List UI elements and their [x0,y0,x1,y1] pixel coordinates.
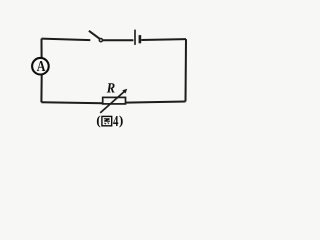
wire: bottom side, left segment (bottom-left corner to rheostat) [41,102,102,103]
label R [107,83,115,92]
wire: left side, upper (corner down to ammeter) [41,39,43,59]
caption glyph tu (figure char) [102,116,112,125]
rheostat R body [103,97,126,104]
switch S pivot contact [99,39,102,42]
battery B1 long plate [134,30,136,45]
caption ) [119,116,122,128]
wire: battery to top-right corner [141,38,186,41]
switch S lever [89,31,100,39]
ammeter A1 circle [32,58,49,75]
caption digit 4 [113,116,118,126]
ammeter A1 letter A [37,61,46,71]
battery B1 short plate [139,35,142,43]
wire: bottom side, right segment (rheostat to bottom-right corner) [126,102,186,103]
wire: left side, lower (ammeter down to bottom-left corner) [40,75,42,103]
wire: switch to battery [103,39,133,41]
wire: top side, left segment (top-left corner to switch) [42,39,91,41]
rheostat R arrow shaft [100,91,125,113]
wire: right side [185,39,188,101]
rheostat R arrowhead [122,89,127,94]
caption ( [97,116,100,128]
